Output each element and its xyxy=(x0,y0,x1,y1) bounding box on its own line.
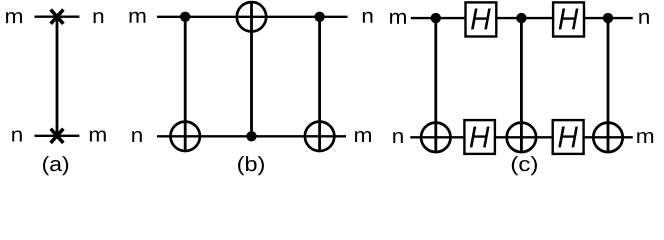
control dot (b) CNOT2 bottom xyxy=(246,131,256,141)
wire: (c) CNOT2 vertical connector xyxy=(520,18,523,153)
wire: (c) CNOT3 vertical connector xyxy=(607,18,610,153)
wire: (c) bottom qubit line xyxy=(410,136,633,138)
wire: (b) CNOT2 vertical connector xyxy=(250,1,253,136)
circuit (a): SWAP gate xyxy=(6,10,106,176)
circuit (b): SWAP as three CNOTs xyxy=(130,1,373,175)
gate box H2 (c top, second) xyxy=(553,2,584,36)
node label n (b top-right) xyxy=(363,12,373,23)
target oplus (b) CNOT2 top xyxy=(237,2,266,31)
node label m (b top-left) xyxy=(130,12,146,23)
wire: (a) top qubit line xyxy=(35,16,80,18)
gate label H4 xyxy=(558,127,578,148)
node label m (c top-left) xyxy=(390,13,406,24)
node label m (a bottom-right) xyxy=(90,131,106,142)
gate label H1 xyxy=(471,9,491,30)
wire: (b) CNOT3 vertical connector xyxy=(318,17,321,152)
control dot (c) CNOT1 top xyxy=(431,13,441,23)
wire: (a) vertical swap connector xyxy=(56,17,59,136)
control dot (c) CNOT3 top xyxy=(603,13,613,23)
node label n (b bottom-left) xyxy=(132,131,142,142)
control dot (b) CNOT3 top xyxy=(314,12,324,22)
control dot (c) CNOT2 top xyxy=(516,13,526,23)
node label m (b bottom-right) xyxy=(355,131,371,142)
swap cross top (a) xyxy=(51,10,64,24)
gate label H3 xyxy=(470,127,490,148)
gate box H3 (c bottom, first) xyxy=(464,120,495,154)
node label n (c bottom-left) xyxy=(393,132,403,143)
target oplus (b) CNOT3 bottom xyxy=(305,122,334,151)
node label m (c bottom-right) xyxy=(637,132,653,143)
node label n (c top-right) xyxy=(639,13,649,24)
wire: (b) bottom qubit line xyxy=(157,135,346,137)
gate label H2 xyxy=(559,9,579,30)
target oplus (c) CNOT2 bottom xyxy=(507,123,536,152)
target oplus (b) CNOT1 bottom xyxy=(171,122,200,151)
caption (a) xyxy=(43,156,68,175)
caption (b) xyxy=(238,156,264,175)
wire: (b) CNOT1 vertical connector xyxy=(184,17,187,152)
swap cross bottom (a) xyxy=(51,129,64,143)
wire: (a) bottom qubit line xyxy=(35,135,80,137)
wire: (c) CNOT1 vertical connector xyxy=(434,18,437,153)
target oplus (c) CNOT3 bottom xyxy=(593,123,622,152)
node label m (a top-left) xyxy=(6,12,22,23)
gate box H4 (c bottom, second) xyxy=(553,120,584,154)
node label n (a bottom-left) xyxy=(12,131,22,142)
wire: (c) top qubit line xyxy=(411,17,633,19)
control dot (b) CNOT1 top xyxy=(180,12,190,22)
caption (c) xyxy=(512,156,537,175)
target oplus (c) CNOT1 bottom xyxy=(421,123,450,152)
circuit (c): CNOTs with Hadamard conjugation xyxy=(390,2,653,175)
node label n (a top-right) xyxy=(94,12,104,23)
gate box H1 (c top, first) xyxy=(466,2,497,36)
wire: (b) top qubit line xyxy=(157,16,348,18)
